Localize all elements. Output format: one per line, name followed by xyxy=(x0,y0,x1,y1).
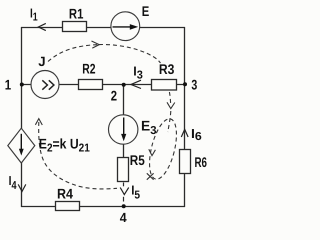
svg-text:3: 3 xyxy=(191,76,197,92)
svg-text:R1: R1 xyxy=(69,6,84,22)
resistor R6 xyxy=(180,150,191,174)
current arrow I1 xyxy=(38,23,45,30)
current source J xyxy=(31,71,59,99)
resistor R3 xyxy=(152,80,177,91)
loop contour E3 dashed ellipse xyxy=(144,116,181,182)
svg-text:2: 2 xyxy=(111,88,117,104)
svg-text:R2: R2 xyxy=(82,60,95,76)
node 3 junction dot xyxy=(183,82,187,86)
wire top from corner (22,27) to corner (185,27) xyxy=(21,27,185,29)
wire middle vertical node2 to R5 xyxy=(123,85,125,182)
loop contour 2 dashed curve from node 4 area to E2 source xyxy=(39,122,117,189)
loop contour E3 arrowhead down on left side xyxy=(149,149,156,155)
svg-text:1: 1 xyxy=(5,76,12,92)
resistor R4 xyxy=(56,202,80,211)
svg-text:R4: R4 xyxy=(57,185,73,201)
voltage source E xyxy=(111,12,140,41)
wire bottom from (22,206.5) to (185,206.5) xyxy=(21,206,185,208)
wire right from (185,27) to (185,206.5) xyxy=(184,27,186,207)
svg-text:J: J xyxy=(38,54,45,69)
voltage source E3 xyxy=(109,115,138,144)
svg-text:4: 4 xyxy=(120,209,127,222)
loop contour 1 dashed arc from J over top to R3 xyxy=(48,44,171,132)
current arrow I3 xyxy=(131,80,141,88)
svg-text:R6: R6 xyxy=(195,154,208,170)
wire dash below R5 xyxy=(123,183,125,187)
svg-text:R3: R3 xyxy=(159,61,175,77)
node 4 junction dot xyxy=(122,204,126,208)
dependent source E2 diamond xyxy=(8,128,35,163)
loop contour 1 arrowhead right at apex xyxy=(92,41,100,48)
current arrow I4 xyxy=(18,184,26,191)
resistor R2 xyxy=(79,80,103,90)
loop contour E3 crossing x mark xyxy=(147,173,154,179)
resistor R5 xyxy=(118,158,129,182)
node 1 junction dot xyxy=(20,83,24,87)
current arrow I6 xyxy=(181,129,188,137)
resistor R1 xyxy=(63,22,87,32)
wire dash above node 4 xyxy=(123,197,125,202)
loop contour 1 arrowhead down near R3 xyxy=(167,102,175,108)
svg-text:E: E xyxy=(142,3,150,19)
wire middle horizontal node1 to node3 xyxy=(22,84,185,86)
current arrow I5 xyxy=(120,188,129,195)
loop contour 2 arrowhead up xyxy=(35,119,42,125)
wire left from (22,27) to (22,206.5) xyxy=(21,27,23,207)
node 2 junction dot xyxy=(122,83,126,87)
svg-text:R5: R5 xyxy=(130,152,145,168)
